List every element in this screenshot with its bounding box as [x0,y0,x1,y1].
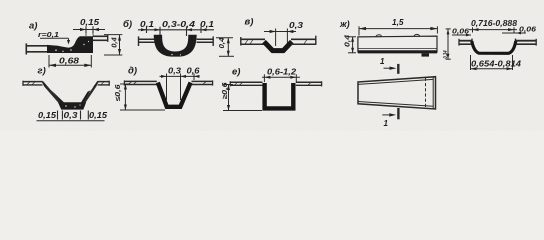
profile g) slope lower solid wedges [51,90,65,103]
profile d) trapezoid groove band [158,83,191,107]
profile g) right flange tick [108,81,110,86]
dimension line (view v) [264,31,296,33]
hat profile right end tick [535,39,537,46]
profile e) left flange tick [229,81,231,86]
bar inner bottom line [359,47,437,49]
svg-text:0,3: 0,3 [168,67,182,76]
section mark 1 (bottom) [397,108,399,119]
dimension >=0,6 (view e left) [223,84,233,86]
svg-text:ж): ж) [339,19,350,29]
svg-text:0,34: 0,34 [443,51,449,59]
dimension 1,5 line [358,26,360,35]
profile v) left strip [241,38,265,40]
dimension 0,4 (view a, right) [104,34,122,36]
wedge inner top line [358,79,433,84]
svg-text:0,15: 0,15 [80,18,100,27]
profile b) left end tick [138,36,140,46]
svg-text:1: 1 [380,57,385,66]
dimension <=0,6 (view d left) [120,83,130,85]
profile a) right thin strip [93,35,108,37]
profile e) right flange tick [321,81,323,86]
svg-text:г): г) [38,66,46,77]
svg-text:0,4: 0,4 [109,36,118,47]
profile b) right strip [197,38,214,40]
svg-text:0,15: 0,15 [89,111,108,120]
svg-text:r=0,1: r=0,1 [38,30,59,39]
dimension line 0,716-0,888 [472,27,474,32]
dimension line 0,06 right [502,32,526,34]
svg-text:0,68: 0,68 [59,56,80,65]
profile v) right strip [291,38,316,40]
profile d) right flange [192,80,214,82]
svg-text:0,6-1,2: 0,6-1,2 [267,68,297,77]
svg-text:а): а) [29,20,37,31]
hat profile left flange [459,40,472,42]
dimension base line (view g) [37,120,105,122]
profile b) left strip [139,38,157,40]
profile a) filled section with step [47,36,93,53]
wedge top view outline [358,77,436,109]
hat profile body band [472,41,516,53]
profile g) left flange [23,81,43,83]
profile v) strip hatches [245,40,248,44]
dimension 0,4 (view b right) [216,37,233,39]
svg-text:в): в) [245,16,254,27]
bump 1 on bar top [376,35,382,37]
dimension line (view b top) [138,29,214,31]
svg-text:1,5: 1,5 [392,18,404,27]
svg-text:0,6: 0,6 [187,67,201,76]
svg-text:0,3: 0,3 [289,21,304,30]
profile e) channel band [265,83,294,108]
wedge inner bottom line [358,102,433,107]
svg-text:0,654-0,814: 0,654-0,814 [471,59,522,68]
svg-text:0,1: 0,1 [140,20,155,29]
svg-text:0,15: 0,15 [38,111,57,120]
svg-text:0,4: 0,4 [345,35,352,47]
profile d) right flange tick [212,80,214,85]
svg-text:д): д) [128,66,137,77]
dimension 0,654-0,814 [470,55,472,70]
dimension line 0,06 left [452,34,471,36]
wedge dashed line near right [425,78,427,108]
svg-text:1: 1 [384,119,389,128]
profile e) left flange [230,81,263,83]
profile v) left end tick [240,37,242,46]
svg-text:0,1: 0,1 [200,20,215,29]
svg-text:0,3: 0,3 [64,111,79,120]
bar bottom black band [358,50,437,53]
dimension 0,15 line (view a) [73,29,105,31]
dimension line (view e) [262,76,300,78]
profile g) left flange tick [22,81,24,86]
black tab under bar [422,53,430,56]
profile a) left end tick [25,43,27,54]
hat profile left end tick [458,39,460,46]
profile g) left slope double line [42,82,60,103]
profile v) right end tick [315,36,317,45]
dimension 0,4 (zh left) [348,36,356,38]
vertical dimension 0,34 (right of bar) [446,28,451,30]
bump 2 on bar top [414,34,420,36]
profile b) right end tick [212,36,214,46]
profile e) right flange [296,81,322,83]
hat profile right flange [516,40,537,42]
profile g) bottom band [58,102,86,109]
profile d) left flange [124,80,157,82]
svg-text:≤0,6: ≤0,6 [115,84,122,101]
profile v) dip band [264,42,292,51]
profile b) U-section band [154,35,197,57]
svg-text:е): е) [232,67,240,78]
profile a) right strip end tick [107,35,109,42]
dimension 0,68 (view a, bottom) [48,55,50,68]
profile g) right flange [98,81,110,83]
profile a) left thin strip [26,45,48,47]
svg-text:0,716-0,888: 0,716-0,888 [471,19,518,28]
profile g) right slope double line [84,82,98,103]
bar side view (zh) outline [358,36,437,52]
svg-text:0,3-0,4: 0,3-0,4 [162,20,196,29]
wedge inner right double line [432,77,434,109]
profile d) left flange tick [123,80,125,85]
svg-text:≥0,6: ≥0,6 [222,82,229,99]
dimension line (view d) [160,75,200,77]
svg-text:0,06: 0,06 [519,25,537,34]
svg-text:б): б) [123,19,132,30]
svg-text:0,4: 0,4 [217,37,226,49]
